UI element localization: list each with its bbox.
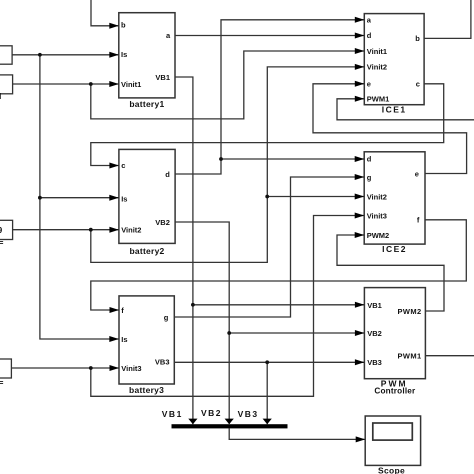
svg-text:f: f bbox=[121, 306, 124, 315]
svg-text:PWM2: PWM2 bbox=[397, 307, 421, 316]
svg-text:Vinit2: Vinit2 bbox=[121, 226, 141, 235]
svg-text:VB3: VB3 bbox=[155, 357, 170, 366]
svg-text:l: l bbox=[0, 91, 2, 101]
svg-text:VB1: VB1 bbox=[367, 301, 382, 310]
svg-text:g: g bbox=[164, 313, 169, 322]
svg-text:Is: Is bbox=[121, 194, 127, 203]
svg-text:VB1: VB1 bbox=[155, 73, 170, 82]
svg-text:PWM1: PWM1 bbox=[397, 352, 421, 361]
svg-text:Is: Is bbox=[121, 50, 127, 59]
svg-text:9: 9 bbox=[0, 225, 3, 235]
svg-text:d: d bbox=[165, 170, 170, 179]
svg-text:b: b bbox=[415, 34, 420, 43]
svg-text:PWM2: PWM2 bbox=[367, 231, 390, 240]
svg-text:Vinit3: Vinit3 bbox=[367, 211, 387, 220]
svg-text:VB3: VB3 bbox=[238, 409, 259, 419]
svg-text:c: c bbox=[121, 161, 125, 170]
svg-text:=: = bbox=[0, 378, 4, 388]
svg-text:=: = bbox=[0, 238, 4, 248]
svg-text:Scope: Scope bbox=[378, 465, 405, 474]
svg-text:e: e bbox=[367, 80, 371, 89]
svg-text:f: f bbox=[417, 216, 420, 225]
svg-text:a: a bbox=[166, 31, 171, 40]
svg-text:a: a bbox=[367, 16, 372, 25]
svg-text:PWM1: PWM1 bbox=[367, 95, 390, 104]
svg-text:battery3: battery3 bbox=[129, 385, 164, 395]
svg-text:ICE2: ICE2 bbox=[382, 244, 407, 254]
svg-text:VB1: VB1 bbox=[162, 409, 183, 419]
svg-text:Controller: Controller bbox=[374, 386, 416, 395]
svg-text:Vinit1: Vinit1 bbox=[121, 80, 141, 89]
svg-text:battery1: battery1 bbox=[129, 99, 164, 109]
svg-text:battery2: battery2 bbox=[129, 246, 164, 256]
svg-text:c: c bbox=[416, 80, 420, 89]
svg-text:Vinit1: Vinit1 bbox=[367, 47, 387, 56]
svg-text:Is: Is bbox=[121, 335, 127, 344]
svg-text:VB2: VB2 bbox=[155, 218, 170, 227]
svg-text:g: g bbox=[367, 173, 372, 182]
svg-text:VB3: VB3 bbox=[367, 358, 382, 367]
svg-text:ICE1: ICE1 bbox=[382, 105, 407, 115]
svg-text:Vinit2: Vinit2 bbox=[367, 63, 387, 72]
svg-text:VB2: VB2 bbox=[367, 329, 382, 338]
svg-text:d: d bbox=[367, 154, 372, 163]
svg-text:VB2: VB2 bbox=[201, 408, 222, 418]
svg-text:Vinit2: Vinit2 bbox=[367, 192, 387, 201]
svg-text:Vinit3: Vinit3 bbox=[121, 364, 141, 373]
svg-text:e: e bbox=[415, 169, 419, 178]
svg-text:d: d bbox=[367, 31, 372, 40]
svg-text:b: b bbox=[121, 21, 126, 30]
